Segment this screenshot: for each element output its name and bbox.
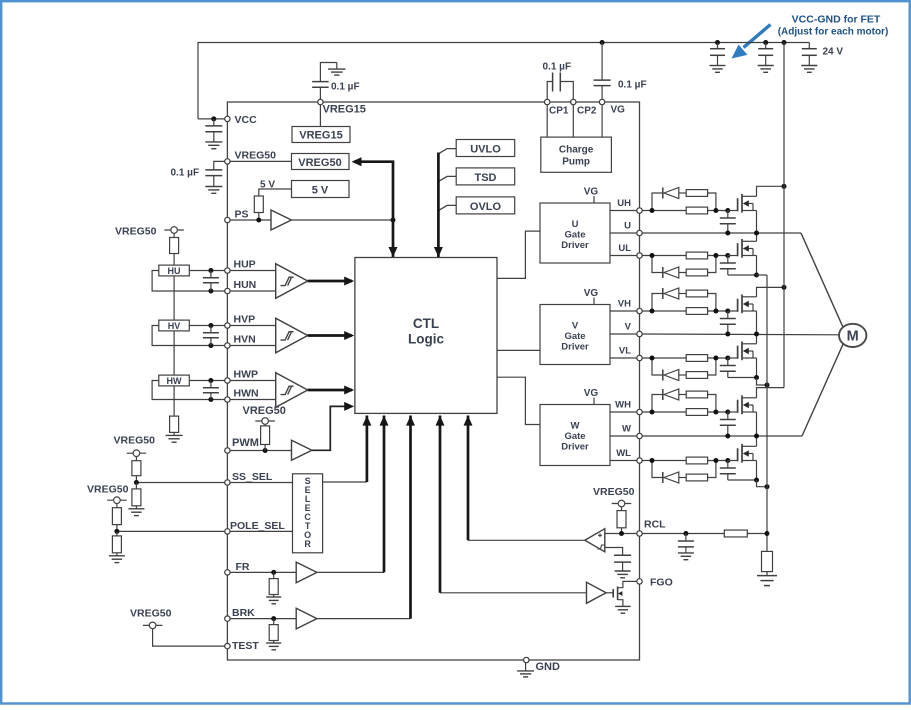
capacitor HW filter (203, 381, 219, 400)
pin V (637, 331, 642, 336)
buffer PWM (292, 440, 312, 460)
resistor POLE_SEL up (112, 504, 121, 532)
node UH junction b (713, 208, 718, 213)
wire thick HU out (308, 280, 352, 283)
svg-text:TEST: TEST (232, 640, 259, 652)
wire supply rail (783, 43, 785, 388)
wire VG riser (601, 102, 603, 137)
pin SS_SEL (225, 480, 230, 485)
wire HVN loop (152, 326, 227, 346)
wire UL branch (652, 256, 716, 273)
pin VL (637, 355, 642, 360)
node PS thick junction (391, 218, 396, 223)
svg-text:FGO: FGO (650, 577, 673, 589)
svg-text:VREG50: VREG50 (114, 435, 156, 447)
schmitt trigger HW (276, 373, 308, 408)
node WL junction a (650, 458, 655, 463)
box VREG50 (292, 154, 350, 170)
wire HWP to schmitt (227, 380, 275, 382)
arrowhead comparator into CTL (464, 416, 473, 426)
svg-text:RCL: RCL (644, 519, 666, 531)
svg-text:UVLO: UVLO (470, 144, 501, 156)
wire PS pin (227, 219, 271, 221)
resistor RWL branch (686, 474, 707, 481)
wire UH gate net (642, 193, 728, 211)
ground GND pin (517, 663, 534, 677)
node 24V rail junction C2 (763, 40, 768, 45)
resistor RCL series (724, 530, 747, 537)
resistor RUL gate (686, 252, 707, 259)
node VL junction a (650, 356, 655, 361)
arrowhead FGO into CTL (436, 416, 445, 426)
wire POLE_SEL line (117, 530, 293, 532)
transistor QUL (728, 239, 757, 258)
blue callout arrow (732, 25, 771, 59)
wire thick SELECTOR to CTL (366, 416, 369, 483)
pin PWM (225, 448, 230, 453)
svg-text:R: R (304, 539, 311, 549)
wire HUN to schmitt (227, 290, 275, 292)
wire CTL to U driver (497, 231, 540, 278)
ground comparator cap (615, 568, 631, 578)
transistor Q FGO (613, 581, 637, 603)
gate driver V box (540, 305, 610, 365)
wire U out (610, 232, 640, 234)
svg-text:24 V: 24 V (823, 47, 844, 58)
node VL gate junction (725, 356, 730, 361)
wire hall chain (173, 254, 175, 417)
svg-text:VG: VG (584, 388, 599, 399)
wire PS buffer out (291, 219, 393, 221)
label HVP (234, 314, 256, 326)
wire VG stub V (593, 298, 595, 305)
svg-text:UH: UH (617, 198, 631, 209)
node HVP cap junction (208, 323, 213, 328)
svg-text:HUP: HUP (234, 259, 256, 271)
svg-text:VREG15: VREG15 (299, 130, 342, 142)
wire CTL to V driver (497, 349, 540, 351)
wire thick HV out (308, 334, 352, 337)
diode DWL (663, 472, 679, 483)
box Charge Pump (541, 137, 612, 172)
label 0.1uF VG (618, 80, 647, 91)
label FR (236, 561, 250, 573)
svg-text:V: V (625, 322, 632, 333)
pin WL (637, 458, 642, 463)
svg-text:HU: HU (168, 266, 181, 276)
arrowhead BRK into CTL (406, 416, 415, 426)
svg-text:VH: VH (618, 299, 631, 310)
wire thick HW out (308, 389, 352, 392)
svg-text:0.1 µF: 0.1 µF (171, 168, 200, 179)
diode DWH (663, 389, 679, 400)
label VREG50 pin (235, 150, 277, 162)
label HVN (234, 334, 256, 346)
wire WL branch (652, 461, 716, 478)
capacitor VG 0.1uF (594, 43, 611, 103)
node SS_SEL junction (134, 480, 139, 485)
diode DUH (663, 188, 679, 199)
svg-text:M: M (847, 329, 859, 345)
node 24V rail junction VG (600, 40, 605, 45)
resistor SS_SEL up (132, 457, 141, 483)
ground VCC cap (205, 142, 222, 149)
box SELECTOR (293, 474, 323, 553)
pin HWN (225, 397, 230, 402)
pin HWP (225, 378, 230, 383)
label 0.1uF VREG15 (331, 82, 360, 93)
label VG W (584, 388, 599, 399)
arrowhead HW into CTL (344, 386, 354, 395)
pin VG (599, 99, 604, 104)
pin VREG50 (225, 159, 230, 164)
node W phase fet (754, 434, 759, 439)
wire WL drain (756, 436, 758, 446)
node WL source junction (754, 478, 759, 483)
buffer BRK (296, 608, 317, 629)
resistor RUL branch (686, 269, 707, 276)
capacitor CWH gate-source (720, 412, 736, 436)
svg-text:CP2: CP2 (577, 106, 597, 117)
svg-text:POLE_SEL: POLE_SEL (230, 520, 285, 532)
wire VH source (756, 311, 758, 334)
terminal VREG50 SS_SEL (127, 450, 147, 457)
svg-text:VREG50: VREG50 (298, 157, 341, 169)
node VH gate junction (725, 309, 730, 314)
label HWP (234, 369, 259, 381)
node RCL sense rail (765, 531, 770, 536)
node WH gate junction (725, 410, 730, 415)
capacitor VREG50 0.1uF (205, 167, 222, 187)
node WL junction b (713, 458, 718, 463)
label PWM (232, 437, 259, 449)
wire BRK line (227, 618, 296, 620)
resistor SS_SEL down (132, 483, 141, 506)
wire WH gate net (642, 395, 728, 413)
diode DVH (663, 288, 679, 299)
wire PWM to CTL (312, 406, 352, 450)
wire VL drain (756, 334, 758, 344)
wire HVP to schmitt (227, 325, 275, 327)
svg-text:HWN: HWN (234, 388, 259, 400)
resistor FR pulldown (269, 572, 278, 594)
node RCL ext cap (683, 531, 688, 536)
wire HUP to schmitt (227, 270, 275, 272)
svg-text:5 V: 5 V (312, 184, 329, 196)
svg-text:Gate: Gate (564, 230, 585, 241)
ground BRK (266, 641, 281, 650)
label VG pin (611, 105, 626, 116)
wire HWN loop (152, 381, 227, 400)
label UL pin (618, 243, 631, 254)
svg-text:0.1 µF: 0.1 µF (331, 82, 360, 93)
resistor hall bottom (170, 416, 179, 432)
label VREG15 pin (323, 104, 366, 116)
node UL junction a (650, 253, 655, 258)
svg-text:Logic: Logic (408, 332, 444, 347)
wire UL source (728, 256, 757, 276)
comparator RCL (585, 529, 605, 552)
wire UL drain (756, 233, 758, 241)
node supply rail V (782, 285, 787, 290)
ground cap2 (758, 66, 774, 73)
wire BRK out (317, 618, 411, 620)
label TEST (232, 640, 259, 652)
resistor RCL pullup (617, 507, 626, 534)
label U pin (624, 221, 631, 232)
label VREG50 PWM (243, 405, 286, 417)
svg-text:FR: FR (236, 561, 250, 573)
wire HVP line (189, 325, 227, 327)
wire comparator out (468, 539, 585, 541)
capacitor HV filter (203, 326, 219, 346)
box VREG15 (292, 127, 350, 143)
wire VL branch (652, 358, 716, 375)
wire CP2 riser (572, 102, 574, 137)
hall sensor box HV (159, 320, 190, 331)
wire comparator lower input (605, 548, 623, 550)
svg-text:HVN: HVN (234, 334, 256, 346)
resistor RWH branch (686, 391, 707, 398)
wire U phase (642, 233, 843, 327)
diode DVL (663, 370, 679, 381)
wire SELECTOR out (323, 481, 367, 483)
svg-text:V: V (572, 321, 579, 332)
node U phase fet (754, 231, 759, 236)
capacitor VREG15 0.1uF (312, 63, 337, 103)
wire FR line (227, 571, 296, 573)
terminal VREG50 hall (164, 227, 184, 234)
capacitor CVH gate-source (720, 311, 736, 334)
wire WH source (756, 412, 758, 436)
arrowhead FR into CTL (380, 416, 389, 426)
svg-text:Charge: Charge (559, 145, 594, 156)
capacitor CUH gate-source (720, 211, 736, 234)
node VCC cap junction (211, 116, 216, 121)
pin W (637, 433, 642, 438)
node BRK junction (271, 616, 276, 621)
wire W phase (642, 344, 843, 436)
node HVN cap junction (208, 343, 213, 348)
label VG U (584, 187, 599, 198)
pin POLE_SEL (225, 529, 230, 534)
arrowhead into VREG50 box (352, 157, 362, 166)
svg-text:HV: HV (168, 321, 181, 331)
schmitt trigger HV (276, 318, 308, 353)
pin U (637, 230, 642, 235)
svg-text:TSD: TSD (475, 172, 497, 184)
wire UVLO stub (438, 149, 456, 154)
svg-text:VREG50: VREG50 (130, 608, 172, 620)
svg-text:VL: VL (619, 346, 631, 357)
label BRK (232, 607, 255, 619)
pin HUN (225, 288, 230, 293)
hall sensor box HW (159, 375, 190, 386)
pin HVN (225, 343, 230, 348)
svg-text:VREG50: VREG50 (235, 150, 277, 162)
svg-text:0.1 µF: 0.1 µF (543, 62, 572, 73)
svg-text:W: W (571, 421, 580, 432)
label VREG50 SS_SEL (114, 435, 156, 447)
ground VREG50 cap (205, 187, 222, 194)
svg-text:HVP: HVP (234, 314, 256, 326)
svg-text:Pump: Pump (562, 157, 590, 168)
pin BRK (225, 616, 230, 621)
wire thick PS to VREG50 box (354, 162, 393, 257)
svg-text:VG: VG (584, 187, 599, 198)
arrowhead PWM into CTL (344, 402, 354, 411)
wire FR out (317, 571, 384, 573)
ground SS_SEL (128, 506, 144, 516)
wire 5V to PS (259, 189, 292, 196)
buffer PS (271, 210, 291, 230)
resistor RWH gate (686, 409, 707, 416)
pin HUP (225, 268, 230, 273)
wire HUP line (189, 270, 227, 272)
node WH junction a (650, 410, 655, 415)
pin UH (637, 208, 642, 213)
node U phase cap (725, 231, 730, 236)
wire thick UVLO chain to CTL (437, 153, 440, 258)
label VG V (584, 288, 599, 299)
wire PS resistor to line (258, 213, 260, 221)
label VL pin (619, 346, 631, 357)
wire VG stub W (593, 398, 595, 405)
capacitor CVL gate-source (720, 358, 736, 378)
label VREG50 POLE_SEL (87, 484, 129, 496)
node VH junction a (650, 309, 655, 314)
ground VREG15 cap (328, 63, 346, 76)
wire WL source to sense rail (757, 480, 768, 487)
arrowhead UVLO into CTL (434, 247, 443, 257)
wire HUN loop (152, 271, 227, 292)
label UH pin (617, 198, 631, 209)
wire HWP line (189, 380, 227, 382)
pin FGO (637, 579, 642, 584)
resistor RVL gate (686, 355, 707, 362)
wire thick FR to CTL (383, 416, 386, 573)
pin RCL (637, 531, 642, 536)
svg-text:PS: PS (235, 209, 249, 221)
svg-text:VCC-GND for FET: VCC-GND for FET (792, 14, 881, 26)
transistor QVL (728, 341, 757, 360)
resistor PS pullup (254, 196, 263, 213)
svg-text:UL: UL (618, 243, 631, 254)
label RCL (644, 519, 666, 531)
wire RCL internal (605, 533, 640, 535)
motor M (839, 324, 866, 347)
arrowhead HV into CTL (344, 331, 354, 340)
node HUP cap junction (208, 268, 213, 273)
wire UL source to sense rail (757, 274, 768, 276)
ground cap3 (801, 66, 817, 73)
capacitor bypass FET 1 (710, 43, 725, 66)
wire thick comparator to CTL (467, 416, 470, 541)
resistor BRK pulldown (269, 619, 278, 641)
node HUN cap junction (208, 289, 213, 294)
resistor RVH branch (686, 290, 707, 297)
node POLE_SEL junction (114, 529, 119, 534)
node WH junction b (713, 410, 718, 415)
wire VH out (610, 310, 640, 312)
pin HVP (225, 323, 230, 328)
node WL gate junction (725, 458, 730, 463)
label HUP (234, 259, 256, 271)
pin TEST (225, 643, 230, 648)
node VH junction b (713, 309, 718, 314)
svg-text:HWP: HWP (234, 369, 259, 381)
wire HVN to schmitt (227, 345, 275, 347)
wire VREG50 box (227, 160, 291, 162)
resistor RWL gate (686, 457, 707, 464)
node HWN cap junction (208, 397, 213, 402)
ground FR (266, 595, 281, 604)
resistor RVL branch (686, 372, 707, 379)
schmitt trigger HU (276, 264, 308, 299)
wire PWM pin (227, 450, 291, 452)
wire VL gate net (642, 357, 728, 359)
label 0.1uF CP (543, 62, 572, 73)
pin UL (637, 253, 642, 258)
gate driver W box (540, 405, 610, 466)
node 24V rail junction FET supply (782, 40, 787, 45)
buffer FGO (587, 582, 607, 603)
capacitor CUL gate-source (720, 256, 736, 276)
label CP1 (549, 106, 569, 117)
wire hall top (173, 233, 175, 237)
wire VCC pin (198, 118, 227, 120)
wire 24V top rail (198, 43, 809, 119)
wire V phase (642, 333, 839, 336)
wire FGO gate (606, 592, 613, 594)
wire UH drain (757, 186, 785, 196)
resistor RUH gate (686, 207, 707, 214)
label CP2 (577, 106, 597, 117)
ground hall chain (166, 432, 183, 442)
box OVLO (456, 197, 515, 214)
resistor RUH branch (686, 190, 707, 197)
box 5V (292, 181, 350, 198)
capacitor RCL filter (678, 534, 694, 550)
svg-text:PWM: PWM (232, 437, 259, 449)
svg-text:0.1 µF: 0.1 µF (618, 80, 647, 91)
svg-text:VREG50: VREG50 (593, 486, 635, 498)
label VCC (235, 114, 258, 126)
wire V out (610, 333, 640, 335)
ground cap1 (710, 66, 726, 73)
transistor QWH (728, 395, 757, 414)
diode DUL (663, 267, 679, 278)
svg-text:U: U (624, 221, 631, 232)
box TSD (456, 168, 515, 185)
wire VL source (728, 358, 757, 378)
wire FGO input (440, 592, 587, 594)
gate driver U box (540, 203, 610, 263)
pin GND (524, 657, 529, 662)
label 0.1uF left (171, 168, 200, 179)
transistor QUH (728, 194, 757, 213)
wire TEST line (153, 629, 228, 646)
svg-text:VREG15: VREG15 (323, 104, 366, 116)
pin CP1 (545, 99, 550, 104)
pin WH (637, 409, 642, 414)
wire UL gate net (642, 255, 728, 257)
pin VH (637, 308, 642, 313)
label W pin (622, 424, 631, 435)
capacitor HU filter (203, 271, 219, 292)
arrowhead SELECTOR into CTL (362, 416, 371, 426)
label POLE_SEL (230, 520, 285, 532)
